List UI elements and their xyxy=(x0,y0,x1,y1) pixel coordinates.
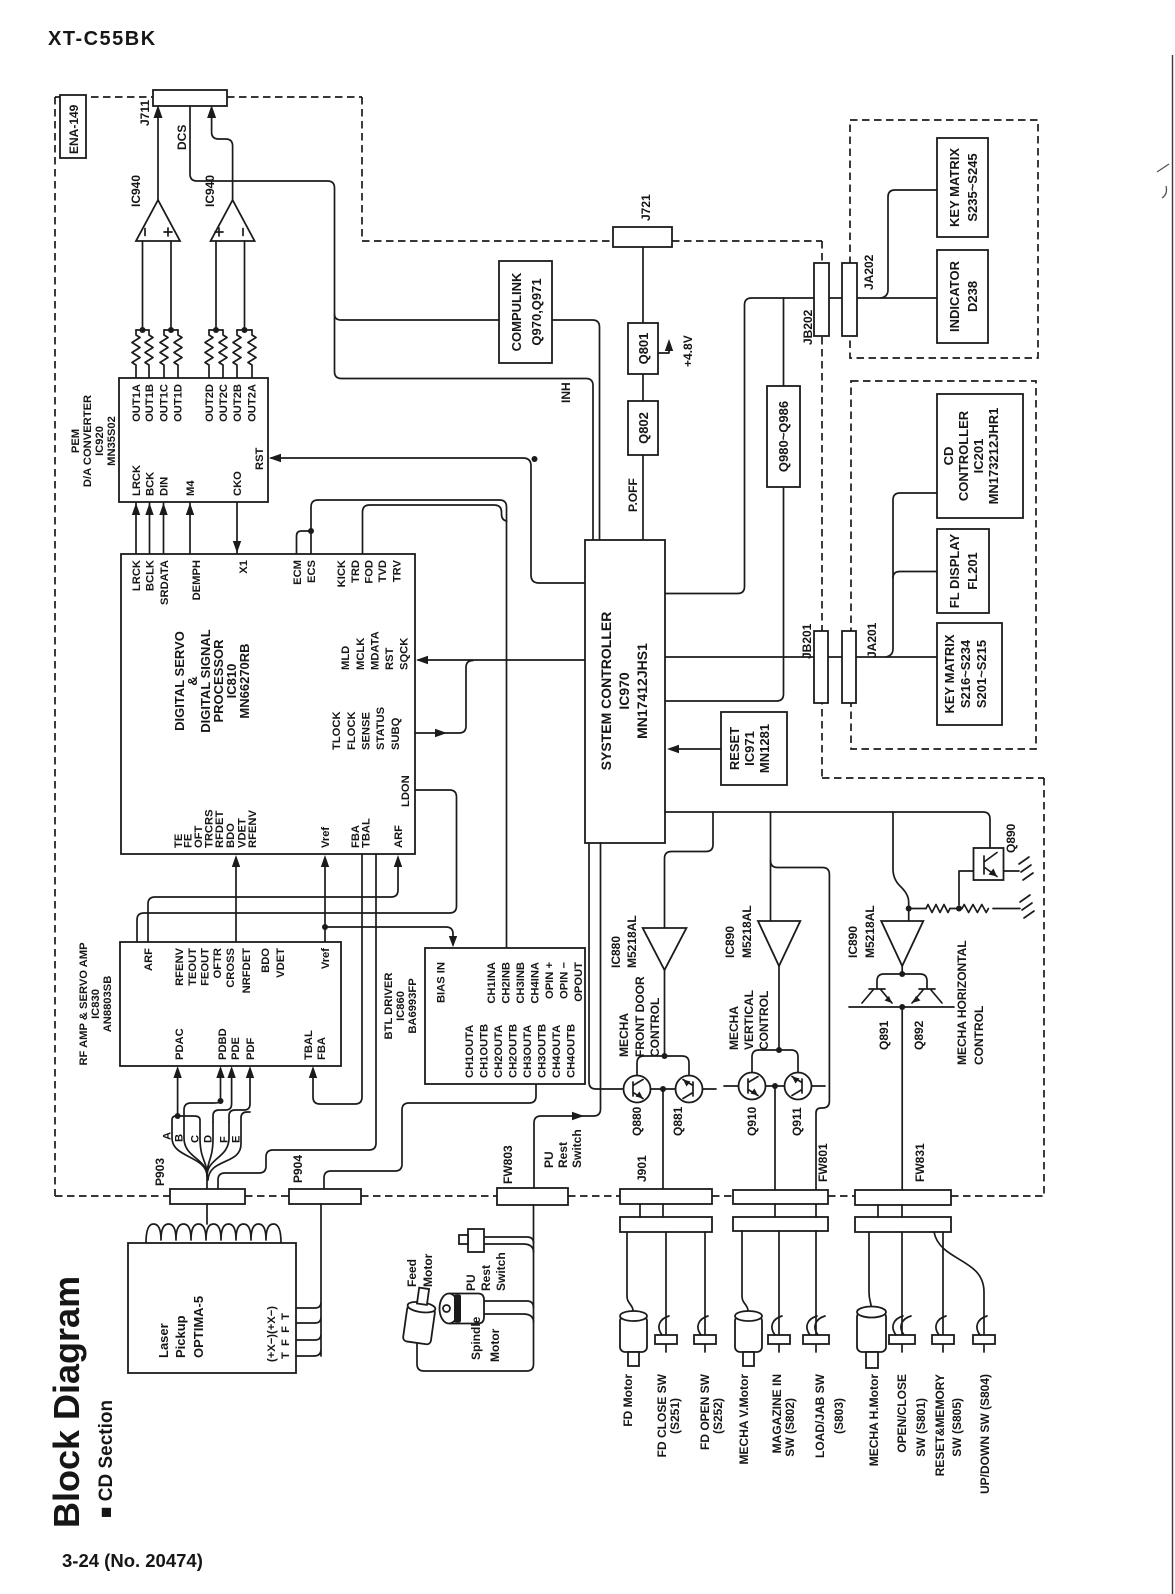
wire DSP FBA down to RF TBAL xyxy=(313,854,362,1104)
svg-text:Spindle: Spindle xyxy=(469,1316,483,1360)
svg-text:IC830: IC830 xyxy=(90,989,102,1019)
wire LDON to left (laser drive) xyxy=(137,790,457,942)
svg-text:OUT2D: OUT2D xyxy=(204,384,216,422)
wire branch to COMPULINK input xyxy=(335,314,500,320)
svg-text:MN1281: MN1281 xyxy=(757,724,772,773)
block system controller IC970 xyxy=(585,540,665,843)
svg-text:3-24 (No. 20474): 3-24 (No. 20474) xyxy=(62,1550,203,1571)
transistor Q891 xyxy=(869,988,885,990)
svg-text:T F F T: T F F T xyxy=(280,1313,292,1359)
svg-text:STATUS: STATUS xyxy=(375,706,387,750)
svg-text:M5218AL: M5218AL xyxy=(625,915,639,968)
svg-text:IC920: IC920 xyxy=(94,426,106,456)
svg-text:D238: D238 xyxy=(965,281,980,312)
svg-text:ECM: ECM xyxy=(292,560,304,585)
block DSP IC810 xyxy=(121,554,415,854)
svg-text:COMPULINK: COMPULINK xyxy=(509,272,524,351)
block CD CONTROLLER IC201 xyxy=(937,394,1023,518)
svg-text:CH3INB: CH3INB xyxy=(515,962,527,1004)
wire +4.8V branch xyxy=(658,343,669,353)
wire opamp1 output to J711 xyxy=(157,110,159,200)
svg-text:MECHA H.Motor: MECHA H.Motor xyxy=(867,1374,881,1467)
svg-text:OUT2C: OUT2C xyxy=(218,384,230,422)
svg-text:F: F xyxy=(219,1136,231,1143)
svg-text:CH3OUTA: CH3OUTA xyxy=(522,1025,534,1078)
resistor R horizontal 2 xyxy=(962,905,988,913)
connector J901 lower xyxy=(620,1217,712,1232)
svg-text:MECHA HORIZONTAL: MECHA HORIZONTAL xyxy=(955,940,969,1065)
svg-text:MLD: MLD xyxy=(340,646,352,670)
svg-text:P903: P903 xyxy=(153,1158,167,1186)
wire branch to IC890 horizontal xyxy=(893,812,909,921)
wire IC880 output to Q880/Q881 bases xyxy=(664,970,666,1056)
svg-text:S216~S234: S216~S234 xyxy=(958,639,973,708)
connector J711 xyxy=(153,90,227,106)
resistor pair2 top bridge xyxy=(164,329,178,331)
wires J901 to FD motor and switches xyxy=(627,1232,705,1352)
svg-text:OUT2B: OUT2B xyxy=(232,384,244,422)
svg-text:IC940: IC940 xyxy=(129,175,143,207)
resistor pair3 top bridge xyxy=(209,329,223,331)
svg-text:IC971: IC971 xyxy=(742,731,757,766)
svg-text:Vref: Vref xyxy=(320,827,332,848)
svg-text:Q911: Q911 xyxy=(790,1107,804,1136)
wire PDAC xyxy=(177,1069,179,1116)
transistor Q881 xyxy=(676,1076,703,1103)
wire RESET to controller xyxy=(670,748,721,750)
svg-text:MECHA V.Motor: MECHA V.Motor xyxy=(737,1374,751,1465)
svg-text:IC860: IC860 xyxy=(395,991,407,1021)
svg-text:OPOUT: OPOUT xyxy=(573,962,585,1002)
svg-text:CH1OUTB: CH1OUTB xyxy=(479,1024,491,1078)
op-amp IC890 (vertical) xyxy=(758,921,800,966)
svg-text:OUT2A: OUT2A xyxy=(247,384,259,422)
wire Q891/Q892 emitter rail to FW831 xyxy=(849,1007,954,1190)
svg-text:SW (S805): SW (S805) xyxy=(950,1398,964,1457)
svg-text:JB201: JB201 xyxy=(800,623,814,659)
magazine in switch symbol xyxy=(768,1335,790,1344)
svg-text:OPIN −: OPIN − xyxy=(559,962,571,999)
svg-text:ARF: ARF xyxy=(143,948,155,971)
svg-text:FD CLOSE SW: FD CLOSE SW xyxy=(655,1373,669,1457)
wire fan branch D stem xyxy=(207,1122,213,1176)
wire fan branch C xyxy=(178,1116,207,1176)
svg-text:BTL DRIVER: BTL DRIVER xyxy=(383,973,395,1040)
svg-text:PDF: PDF xyxy=(245,1037,257,1060)
wire BTL output to P904 xyxy=(324,1084,536,1189)
svg-text:Switch: Switch xyxy=(570,1129,584,1168)
svg-text:FW803: FW803 xyxy=(501,1145,515,1184)
svg-text:TVD: TVD xyxy=(377,560,389,582)
wire pickup pins to P904 xyxy=(296,1204,321,1356)
dashed box key matrix / indicator (top right) xyxy=(850,120,1038,358)
svg-text:SW (S802): SW (S802) xyxy=(783,1398,797,1457)
svg-text:M5218AL: M5218AL xyxy=(740,905,754,958)
svg-text:LDON: LDON xyxy=(400,775,412,807)
svg-text:Q980~Q986: Q980~Q986 xyxy=(776,401,791,472)
svg-text:M4: M4 xyxy=(185,480,197,496)
svg-text:FRONT DOOR: FRONT DOOR xyxy=(633,976,647,1057)
svg-text:Pickup: Pickup xyxy=(173,1315,188,1358)
svg-text:DIN: DIN xyxy=(159,477,171,496)
main dashed border xyxy=(55,97,1044,1196)
svg-text:Q890: Q890 xyxy=(1004,823,1018,853)
wire Q910/Q911 emitters to FW801 xyxy=(724,1086,825,1190)
svg-text:KEY MATRIX: KEY MATRIX xyxy=(942,634,957,713)
svg-text:SENSE: SENSE xyxy=(361,712,373,750)
svg-text:IC940: IC940 xyxy=(203,175,217,207)
svg-text:JB202: JB202 xyxy=(801,309,815,345)
svg-text:OUT1B: OUT1B xyxy=(144,384,156,422)
svg-text:OPTIMA-5: OPTIMA-5 xyxy=(191,1296,206,1358)
svg-text:FBA: FBA xyxy=(316,1037,328,1060)
svg-text:SQCK: SQCK xyxy=(399,638,411,670)
connector FW801 upper xyxy=(733,1190,828,1204)
wire branch PU rest switch lower xyxy=(484,1237,534,1252)
svg-text:PDAC: PDAC xyxy=(174,1028,186,1060)
svg-text:JA201: JA201 xyxy=(865,622,879,658)
wire opamp1 non-inverting input from resistor pair2 xyxy=(170,241,172,330)
connector J901 upper xyxy=(620,1189,712,1204)
svg-text:FOD: FOD xyxy=(364,560,376,584)
feed motor xyxy=(403,1286,438,1344)
block Q802 xyxy=(628,401,658,455)
connector FW801 lower xyxy=(733,1217,828,1231)
svg-text:CH1OUTA: CH1OUTA xyxy=(464,1025,476,1078)
op-amp IC940 (left) xyxy=(136,200,180,241)
svg-text:CH2OUTB: CH2OUTB xyxy=(508,1024,520,1078)
block Q801 xyxy=(628,323,658,374)
connector JB201 xyxy=(814,631,828,703)
wire BCK xyxy=(149,503,151,554)
block RESET IC971 xyxy=(721,712,787,785)
wire Q890 to ground xyxy=(1003,870,1020,872)
wire COMPULINK output INH to system controller xyxy=(552,320,600,540)
load/jab switch symbol xyxy=(803,1335,829,1344)
svg-text:PEM: PEM xyxy=(70,429,82,453)
block BTL driver IC860 xyxy=(425,948,585,1084)
wire Q880/Q881 emitters to J901 xyxy=(651,1089,717,1189)
wire Vref branch to BTL BIAS IN xyxy=(325,927,453,945)
svg-text:CONTROL: CONTROL xyxy=(648,998,662,1057)
svg-text:J711: J711 xyxy=(138,100,152,126)
svg-text:Q970,Q971: Q970,Q971 xyxy=(529,278,544,345)
svg-text:Q891: Q891 xyxy=(877,1020,891,1050)
wire ECS to BTL CH4INA (long bus) xyxy=(311,500,507,948)
op-amp IC940 (right) xyxy=(211,200,255,241)
wire branch to Q980 top xyxy=(783,298,785,386)
connector FW803 xyxy=(497,1188,568,1205)
svg-text:SYSTEM CONTROLLER: SYSTEM CONTROLLER xyxy=(598,612,614,771)
svg-text:MCLK: MCLK xyxy=(355,638,367,670)
svg-text:FW831: FW831 xyxy=(913,1143,927,1182)
resistor OUT2A xyxy=(248,330,256,378)
FD open switch symbol xyxy=(694,1335,716,1344)
transistor Q892 xyxy=(919,988,935,990)
wire P903 to pickup coil xyxy=(206,1204,208,1224)
wire fan branch F stem xyxy=(207,1122,229,1176)
svg-text:CH4INA: CH4INA xyxy=(530,962,542,1004)
wire fan branch E xyxy=(208,1112,250,1180)
svg-text:FD OPEN SW: FD OPEN SW xyxy=(698,1373,712,1450)
svg-text:D: D xyxy=(203,1135,215,1143)
svg-text:JA202: JA202 xyxy=(862,254,876,290)
wire ECM stub xyxy=(297,531,312,554)
svg-text:PDBD: PDBD xyxy=(217,1028,229,1060)
resistor pair1 top bridge xyxy=(136,329,149,331)
wire PDBD xyxy=(220,1069,222,1101)
FD motor symbol xyxy=(620,1316,647,1352)
svg-text:DEMPH: DEMPH xyxy=(191,560,203,600)
svg-text:BA6993FP: BA6993FP xyxy=(407,978,419,1034)
svg-text:+4.8V: +4.8V xyxy=(681,335,695,367)
svg-text:SUBQ: SUBQ xyxy=(390,717,402,750)
svg-text:S201~S215: S201~S215 xyxy=(974,640,989,708)
svg-text:FW801: FW801 xyxy=(816,1143,830,1182)
connector JA202 xyxy=(842,263,857,336)
svg-text:X1: X1 xyxy=(238,560,250,574)
svg-text:LRCK: LRCK xyxy=(131,560,143,591)
svg-text:RST: RST xyxy=(384,647,396,670)
svg-text:MN66270RB: MN66270RB xyxy=(237,643,252,718)
wire controller to JB201 / KEY MATRIX S216 xyxy=(665,656,937,658)
svg-text:BDO: BDO xyxy=(225,823,237,848)
svg-text:TBAL: TBAL xyxy=(361,818,373,848)
svg-text:OUT1C: OUT1C xyxy=(159,384,171,422)
svg-text:BIAS IN: BIAS IN xyxy=(436,962,448,1003)
svg-text:■ CD Section: ■ CD Section xyxy=(96,1400,117,1518)
wires FW801 to V motor and switches xyxy=(742,1231,816,1352)
svg-text:MDATA: MDATA xyxy=(370,631,382,670)
wire Q890 emitter to resistor junction xyxy=(959,871,974,905)
transistor Q880 xyxy=(624,1076,651,1103)
open/close switch symbol xyxy=(889,1335,915,1344)
wire CKO to X1 xyxy=(236,502,238,553)
wire Q802 to controller P.OFF xyxy=(642,455,644,540)
svg-text:PDE: PDE xyxy=(230,1036,242,1060)
block Q980~Q986 xyxy=(767,386,800,487)
wire PDF xyxy=(229,1069,250,1122)
svg-text:INDICATOR: INDICATOR xyxy=(947,260,962,332)
svg-text:E: E xyxy=(231,1135,243,1143)
wire opamp2 output jog to J711 xyxy=(212,110,233,200)
svg-text:CONTROL: CONTROL xyxy=(757,991,771,1050)
svg-text:RST: RST xyxy=(254,447,266,470)
wire branch to IC890 vertical xyxy=(770,812,772,921)
svg-text:P.OFF: P.OFF xyxy=(626,478,640,512)
wire FW803 down to feed motor xyxy=(417,1205,534,1371)
resistor OUT2D xyxy=(205,330,213,378)
wire opamp1 inverting input from resistor pair1 xyxy=(142,241,144,330)
svg-text:CH3OUTB: CH3OUTB xyxy=(537,1024,549,1078)
svg-text:IC890: IC890 xyxy=(846,926,860,958)
svg-text:J721: J721 xyxy=(639,194,653,221)
svg-text:CH2INB: CH2INB xyxy=(501,962,513,1004)
svg-text:VERTICAL: VERTICAL xyxy=(742,990,756,1050)
svg-text:CH4OUTB: CH4OUTB xyxy=(566,1024,578,1078)
wire opamp2 non-inverting input from resistor pair3 xyxy=(215,241,217,330)
svg-text:RF AMP & SERVO AMP: RF AMP & SERVO AMP xyxy=(78,942,90,1066)
wire branch to IC880 xyxy=(665,812,714,928)
wire SUBQ out of DSP joining SQCK line xyxy=(415,661,473,734)
wire bus controller right to Q890 xyxy=(665,812,990,848)
wire PU rest switch line controller to FW803 xyxy=(534,843,601,1188)
wire JA202 to INDICATOR xyxy=(857,297,937,299)
svg-text:CONTROL: CONTROL xyxy=(972,1006,986,1065)
wire RFDET RF amp to DSP xyxy=(235,858,237,942)
svg-text:Q801: Q801 xyxy=(636,333,651,365)
ENA-149 frame box xyxy=(60,95,86,158)
block KEY MATRIX S235~S245 xyxy=(937,138,988,237)
resistor OUT2B xyxy=(233,330,241,378)
svg-text:Q910: Q910 xyxy=(745,1106,759,1136)
svg-text:FD Motor: FD Motor xyxy=(621,1374,635,1427)
svg-text:ENA-149: ENA-149 xyxy=(67,104,81,154)
svg-text:CROSS: CROSS xyxy=(225,947,237,987)
svg-text:SW (S801): SW (S801) xyxy=(914,1398,928,1457)
svg-text:LOAD/JAB SW: LOAD/JAB SW xyxy=(813,1373,827,1458)
svg-text:CD: CD xyxy=(941,447,956,466)
block KEY MATRIX S216~S234 xyxy=(937,623,1002,725)
block INDICATOR D238 xyxy=(937,250,988,343)
block laser pickup OPTIMA-5 xyxy=(128,1243,296,1373)
svg-text:INH: INH xyxy=(559,382,573,403)
svg-text:OPEN/CLOSE: OPEN/CLOSE xyxy=(895,1374,909,1453)
resistor OUT1D xyxy=(174,330,182,378)
svg-text:AN8803SB: AN8803SB xyxy=(102,976,114,1033)
wire controller to JB202 via jog xyxy=(665,298,814,594)
block COMPULINK xyxy=(499,261,552,363)
wire branch up to CD CONTROLLER xyxy=(886,493,937,657)
svg-text:Q881: Q881 xyxy=(671,1106,685,1136)
svg-text:MN35S02: MN35S02 xyxy=(106,416,118,466)
svg-text:BDO: BDO xyxy=(260,948,272,973)
wire curve to UP/DOWN switch xyxy=(934,1232,984,1352)
resistor pair4 top bridge xyxy=(237,329,252,331)
reset&memory switch symbol xyxy=(932,1335,954,1344)
wire branch to FW801 supply xyxy=(771,861,830,1191)
PU rest switch symbol xyxy=(468,1229,484,1252)
mecha H motor symbol xyxy=(857,1312,886,1352)
svg-text:RESET&MEMORY: RESET&MEMORY xyxy=(933,1374,947,1476)
svg-text:BCK: BCK xyxy=(145,472,157,496)
svg-text:Q892: Q892 xyxy=(912,1020,926,1050)
block RF amp IC830 xyxy=(120,942,341,1066)
svg-text:MN173212JHR1: MN173212JHR1 xyxy=(986,408,1001,505)
svg-text:Laser: Laser xyxy=(156,1323,171,1358)
wires FW831 to H motor and switches xyxy=(869,1232,943,1352)
wire branch spindle motor xyxy=(484,1301,534,1322)
block FL DISPLAY FL201 xyxy=(937,529,989,613)
svg-text:FL201: FL201 xyxy=(965,552,980,590)
svg-text:OUT1D: OUT1D xyxy=(173,384,185,422)
wire DIN xyxy=(163,503,165,554)
wire resistor row to grounds xyxy=(909,908,1020,910)
svg-text:CH4OUTA: CH4OUTA xyxy=(551,1025,563,1078)
svg-text:KEY MATRIX: KEY MATRIX xyxy=(947,148,962,227)
svg-text:Vref: Vref xyxy=(320,948,332,969)
svg-text:P904: P904 xyxy=(291,1155,305,1183)
connector JB202 xyxy=(814,263,829,336)
scan edge line right xyxy=(1172,55,1174,1594)
wire fan branch A xyxy=(172,1116,207,1176)
connector J721 xyxy=(613,227,672,247)
wire LRCK D/A to DSP xyxy=(135,503,137,554)
svg-text:MAGAZINE IN: MAGAZINE IN xyxy=(770,1374,784,1453)
wire DCS from J711 down-right to system controller xyxy=(190,106,593,540)
ground symbol right of resistors xyxy=(1020,895,1034,918)
svg-text:S235~S245: S235~S245 xyxy=(965,153,980,221)
svg-text:(+X−)(+X−): (+X−)(+X−) xyxy=(266,1306,278,1362)
junction dots resistor pairs xyxy=(140,327,146,333)
resistor OUT1A xyxy=(132,330,140,378)
svg-text:(S803): (S803) xyxy=(832,1398,846,1434)
svg-text:NRFDET: NRFDET xyxy=(241,948,253,994)
wire M4 xyxy=(189,503,191,554)
svg-text:Switch: Switch xyxy=(494,1252,508,1291)
svg-text:TBAL: TBAL xyxy=(303,1030,315,1060)
wire controller to Q880 left xyxy=(589,843,624,1089)
svg-text:XT-C55BK: XT-C55BK xyxy=(48,28,157,50)
svg-text:KICK: KICK xyxy=(336,560,348,587)
svg-text:VDET: VDET xyxy=(275,948,287,978)
ground symbol right of Q890 xyxy=(1019,857,1033,880)
svg-text:FEOUT: FEOUT xyxy=(200,948,212,986)
svg-text:D/A CONVERTER: D/A CONVERTER xyxy=(82,395,94,487)
connector FW831 upper xyxy=(855,1190,951,1205)
wire Vref RF amp to DSP xyxy=(324,858,326,942)
dashed box CD controller (mid right) xyxy=(851,381,1036,749)
svg-text:B: B xyxy=(174,1134,186,1142)
svg-text:Feed: Feed xyxy=(405,1259,419,1287)
transistor Q890 in box xyxy=(974,848,1004,880)
svg-text:FL DISPLAY: FL DISPLAY xyxy=(947,533,962,608)
connector FW831 lower xyxy=(855,1217,951,1232)
wire RST to D/A from controller xyxy=(271,458,586,583)
svg-text:OUT1A: OUT1A xyxy=(131,384,143,422)
wire IC890 output to Q910/Q911 bases xyxy=(778,966,780,1050)
svg-text:Motor: Motor xyxy=(421,1253,435,1287)
svg-text:TRD: TRD xyxy=(350,560,362,583)
wire IC890 output to Q891/Q892 xyxy=(901,966,903,974)
svg-text:A: A xyxy=(162,1132,174,1140)
op-amp IC890 (horizontal) xyxy=(881,921,923,966)
block D/A converter IC920 xyxy=(119,378,268,502)
wire DSP TBAL down to P903 xyxy=(218,854,376,1189)
svg-text:TRV: TRV xyxy=(392,559,404,582)
svg-text:IC201: IC201 xyxy=(971,439,986,474)
svg-text:BCLK: BCLK xyxy=(145,560,157,591)
up/down switch symbol xyxy=(973,1335,995,1344)
resistor OUT1B xyxy=(145,330,153,378)
svg-text:Rest: Rest xyxy=(556,1142,570,1168)
svg-text:RFENV: RFENV xyxy=(174,947,186,985)
wire fan branch B xyxy=(184,1101,221,1176)
svg-text:J901: J901 xyxy=(635,1155,649,1182)
svg-text:(S252): (S252) xyxy=(711,1398,725,1434)
svg-text:Q880: Q880 xyxy=(630,1106,644,1136)
mecha V motor symbol xyxy=(735,1316,762,1352)
svg-text:ARF: ARF xyxy=(393,825,405,848)
wire Q980 bottom to controller xyxy=(665,487,784,701)
resistor OUT2C xyxy=(219,330,227,378)
svg-text:CONTROLLER: CONTROLLER xyxy=(956,410,971,501)
resistor R horizontal 1 xyxy=(926,905,950,913)
wire SQCK from controller to DSP xyxy=(418,659,586,661)
wire PDE xyxy=(213,1069,232,1122)
wire P903 stem xyxy=(206,1170,208,1189)
svg-text:OPIN +: OPIN + xyxy=(544,962,556,999)
